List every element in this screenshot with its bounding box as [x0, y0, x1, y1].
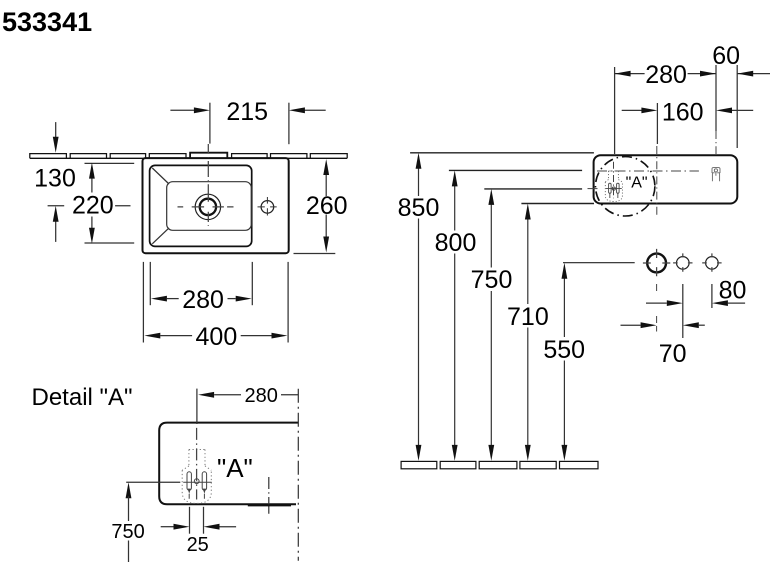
svg-text:Detail "A": Detail "A" [32, 384, 133, 411]
svg-text:750: 750 [471, 266, 513, 294]
wall tile strip (plan) [30, 154, 347, 159]
svg-text:220: 220 [72, 192, 114, 220]
dim 260 vertical line with arrows [325, 173, 327, 196]
dim 280 (top) right arrow [688, 73, 716, 75]
wall face line (plan) [30, 157, 347, 159]
svg-text:60: 60 [712, 42, 740, 70]
level line 800 [449, 169, 582, 171]
dim 220 extension line top [85, 162, 135, 164]
detail indicator circle (chain) [596, 157, 655, 216]
dim 215 right arrow [304, 109, 326, 111]
basin side profile [594, 155, 738, 203]
svg-text:25: 25 [187, 534, 209, 556]
dim 130 bottom arrow [55, 220, 57, 242]
dim 80 arrows [646, 302, 667, 304]
dim 280 (top) left arrow [615, 73, 645, 75]
dim 260 bottom extension line [294, 253, 336, 255]
fixing hole circle 2 [677, 257, 690, 270]
svg-text:80: 80 [719, 277, 747, 305]
dim 220 vertical line with arrows [91, 178, 93, 193]
basin inner rim (plan) [150, 165, 252, 246]
svg-text:550: 550 [543, 336, 585, 364]
floor tiles [401, 461, 598, 468]
dim 750 (detail) arrow line [126, 482, 132, 498]
fixing hole circle 3 [706, 257, 719, 270]
center reference dashes at tap level [48, 205, 131, 207]
extension line below circle 3 [711, 284, 713, 308]
dim 400 extension lines [142, 262, 144, 343]
dim 25 extension lines [189, 507, 191, 534]
svg-text:710: 710 [507, 303, 549, 331]
level line 710 [521, 203, 594, 205]
svg-text:"A": "A" [626, 174, 648, 191]
vertical dim 550 [563, 277, 565, 337]
dim 280 extension lines (plan bottom) [149, 262, 151, 305]
horizontal chain line through trap [597, 170, 699, 172]
svg-text:70: 70 [659, 340, 687, 368]
dim 280 line and arrows (plan bottom) [167, 298, 179, 300]
trap vertical centerline (detail, chain) [196, 428, 198, 500]
detail basin profile outline [159, 423, 298, 505]
extension line x=614.6 (dim 280 left) [614, 67, 616, 154]
svg-text:"A": "A" [217, 453, 253, 483]
level line 750 [484, 188, 582, 190]
extension line x=737.2 (dim 60 right) [736, 65, 738, 148]
fixing hole circle 1 [647, 254, 666, 273]
bowl chamfer bottom-left [152, 228, 169, 244]
side hole circle [261, 201, 274, 214]
dim 60 right arrow [737, 73, 770, 75]
tap hole inner circle [200, 199, 216, 215]
dim 215 extension line right [288, 103, 290, 145]
tap deck bump (plan) [190, 153, 227, 159]
svg-text:400: 400 [196, 323, 238, 351]
svg-text:533341: 533341 [2, 7, 92, 37]
trap symbol (detail, dotted) [182, 450, 212, 504]
dim 70 arrows [621, 324, 641, 326]
svg-text:260: 260 [306, 192, 348, 220]
vertical dim 850 [418, 168, 420, 196]
extension line x=657.4 (dim 160 left) [656, 103, 658, 144]
dim 750 (detail) reference line [126, 481, 180, 483]
tap hole outer circle [195, 194, 220, 219]
level line 550 [563, 262, 635, 264]
svg-text:280: 280 [182, 286, 224, 314]
extension line below circle 2 [682, 284, 684, 338]
dim 160 left arrow [622, 109, 643, 111]
vertical dim 750 [490, 204, 492, 268]
trap symbol (side view, small) [605, 171, 622, 202]
svg-text:280: 280 [645, 61, 687, 89]
bowl floor (plan) [167, 182, 252, 231]
dim 25 arrows [161, 526, 175, 528]
trap vertical centerline (chain) [613, 162, 615, 199]
bottom edge reinforcement segment [248, 504, 291, 506]
detail cut axis (chain line) [297, 389, 299, 561]
svg-text:850: 850 [398, 194, 440, 222]
svg-text:160: 160 [662, 99, 704, 127]
dim 215 left arrow [170, 109, 195, 111]
dim 220 extension line bottom [85, 242, 135, 244]
basin outer outline (plan) [143, 158, 289, 253]
fixing hole axis cross [268, 477, 270, 514]
dim 400 line and arrows [160, 335, 192, 337]
side hole center marks [258, 197, 277, 216]
dim 160 right arrow [731, 109, 753, 111]
tap hole horizontal centerline [178, 206, 234, 208]
dim 130 top arrow [55, 122, 57, 139]
chain dashes at 750 level [588, 188, 598, 190]
bowl chamfer top-left [152, 168, 169, 184]
dim 215 extension line left [209, 103, 211, 144]
vertical dim 710 [527, 218, 529, 304]
svg-text:130: 130 [34, 164, 76, 192]
tap hole vertical centerline (chain) [207, 144, 209, 226]
svg-text:800: 800 [435, 229, 477, 257]
svg-text:280: 280 [245, 385, 278, 407]
svg-text:750: 750 [111, 521, 144, 543]
level line 850 [410, 152, 594, 154]
svg-text:215: 215 [226, 98, 268, 126]
extension line x=716 (dims 280/160/60) [715, 65, 717, 131]
dashed drop line below circle 1 [656, 284, 658, 332]
dim 280 (detail) arrow and line [196, 389, 198, 424]
vertical dim 800 [454, 185, 456, 231]
faucet hole symbol (side view) [712, 168, 720, 182]
